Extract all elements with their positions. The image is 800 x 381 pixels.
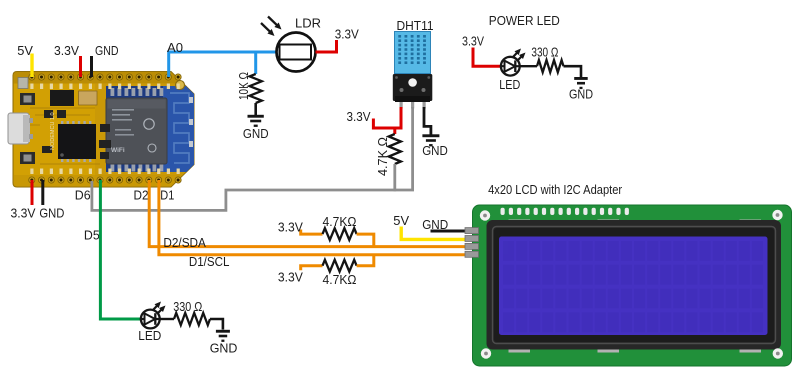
svg-text:LED: LED (138, 328, 161, 343)
label 3.3V pullup SCL (278, 269, 303, 284)
wire D5 green to LED (100, 180, 146, 319)
wire D2/SDA orange (149, 180, 465, 247)
wire resistor to ground bottom (210, 319, 223, 330)
metal part top-left (18, 78, 28, 89)
I2C connector pins on LCD (465, 228, 479, 258)
wire 3.3V red to board top (79, 56, 82, 77)
svg-text:330 Ω: 330 Ω (531, 45, 558, 60)
LED D2 indicator (140, 310, 161, 329)
svg-text:5V: 5V (393, 213, 409, 228)
label GND bottom LED (210, 341, 238, 356)
svg-text:GND: GND (422, 217, 448, 232)
wire DHT11 data gray to D6 (92, 107, 413, 210)
svg-text:4.7K Ω: 4.7K Ω (375, 137, 390, 176)
micro USB connector (8, 113, 29, 144)
svg-text:4.7KΩ: 4.7KΩ (323, 272, 357, 287)
button FLASH (20, 152, 35, 164)
label D1/SCL (189, 254, 230, 269)
CH340 usb-serial chip (58, 121, 96, 162)
svg-text:3.3V: 3.3V (11, 206, 36, 221)
label D2 (134, 188, 149, 203)
label DHT11 (397, 18, 434, 33)
wire DHT11 GND black (424, 107, 431, 135)
wire 5V yellow to LCD (401, 227, 465, 240)
ground at DHT11 (422, 134, 439, 146)
label 5V top (17, 43, 33, 58)
wire 3.3V red to power LED (473, 48, 508, 67)
label 4.7K SDA (323, 214, 357, 229)
label GND under 10K (243, 126, 269, 141)
pin header holes (29, 74, 182, 183)
svg-text:3.3V: 3.3V (278, 269, 303, 284)
passives (42, 110, 111, 159)
label GND power LED (569, 87, 593, 102)
label 4.7K ohm rotated (375, 137, 390, 176)
svg-text:3.3V: 3.3V (54, 43, 79, 58)
svg-text:GND: GND (210, 341, 238, 356)
NodeMCU ESP8266 board U1 (8, 72, 194, 188)
label A0 (167, 40, 183, 55)
resistor 10K pulldown (250, 74, 262, 115)
label 3.3V at DHT11 (347, 109, 371, 124)
wire SDA pullup to bus (357, 234, 374, 247)
svg-text:5V: 5V (17, 43, 33, 58)
label 3.3V top (54, 43, 79, 58)
wire 3.3V red at LDR (316, 40, 337, 52)
wire SCL pullup to bus (357, 255, 374, 266)
label 4.7K SCL (323, 272, 357, 287)
svg-text:POWER LED: POWER LED (489, 13, 560, 28)
polyfuse (tan) (79, 91, 98, 105)
resistor 330 ohm power (537, 60, 564, 72)
svg-text:DHT11: DHT11 (397, 18, 434, 33)
svg-text:LDR: LDR (295, 16, 321, 31)
label 3.3V at LDR (335, 27, 359, 42)
svg-text:GND: GND (243, 126, 269, 141)
svg-text:D1: D1 (160, 188, 174, 203)
svg-text:330 Ω: 330 Ω (173, 299, 202, 314)
LDR light arrows (261, 17, 282, 37)
svg-text:LED: LED (499, 77, 520, 92)
svg-text:D2: D2 (134, 188, 149, 203)
LED D1 power indicator (500, 57, 521, 76)
wire A0 blue from board to LDR (169, 52, 277, 77)
svg-text:GND: GND (95, 43, 119, 58)
label GND at DHT11 (422, 143, 448, 158)
resistor 4.7K pullup DHT data (389, 134, 401, 164)
svg-text:4.7KΩ: 4.7KΩ (323, 214, 357, 229)
label LDR (295, 16, 321, 31)
wire GND black board bottom (41, 180, 44, 205)
ground under 10K (248, 115, 264, 127)
label LED power (499, 77, 520, 92)
svg-text:3.3V: 3.3V (462, 34, 484, 49)
label POWER LED (489, 13, 560, 28)
LDR photoresistor (277, 33, 316, 72)
wire 3.3V orange to SCL pullup (301, 266, 323, 271)
label D1 (160, 188, 174, 203)
svg-text:GND: GND (39, 206, 64, 221)
label 3.3V bottom left (11, 206, 36, 221)
button RST (20, 93, 35, 105)
label D6 (75, 188, 91, 203)
svg-text:4x20 LCD with I2C Adapter: 4x20 LCD with I2C Adapter (488, 182, 623, 197)
label GND top (95, 43, 119, 58)
wire 5V yellow to board top (30, 54, 33, 78)
svg-text:D6: D6 (75, 188, 91, 203)
LED light arrows (513, 49, 526, 61)
label 330 ohm bottom (173, 299, 202, 314)
label 3.3V at power LED (462, 34, 484, 49)
wire GND black to board top (90, 56, 93, 77)
wire 3.3V red board bottom (31, 180, 34, 205)
ground power LED (574, 77, 588, 89)
silkscreen pads (30, 84, 180, 175)
LCD 4x20 module with I2C adapter (473, 205, 792, 366)
svg-text:A0: A0 (167, 40, 183, 55)
resistor 4.7K SDA pullup (323, 228, 357, 240)
svg-text:D1/SCL: D1/SCL (189, 254, 230, 269)
svg-text:NODEMCU 1.0: NODEMCU 1.0 (50, 112, 56, 150)
label LED bottom (138, 328, 161, 343)
LED light arrows bottom (153, 302, 166, 314)
label GND at LCD (422, 217, 448, 232)
svg-text:3.3V: 3.3V (278, 220, 303, 235)
label 4x20 LCD with I2C Adapter (488, 182, 623, 197)
svg-text:3.3V: 3.3V (335, 27, 359, 42)
wire resistor to ground (564, 66, 582, 77)
svg-text:10K Ω: 10K Ω (236, 72, 251, 100)
svg-text:WiFi: WiFi (111, 147, 125, 154)
ESP-12E wifi module (106, 86, 194, 172)
label D5 (84, 228, 100, 243)
wire GND black to LCD (431, 230, 466, 233)
svg-text:D2/SDA: D2/SDA (163, 235, 206, 250)
svg-text:GND: GND (569, 87, 593, 102)
wire LED to resistor bottom (159, 318, 174, 320)
resistor 330 ohm bottom (174, 313, 210, 325)
svg-text:D5: D5 (84, 228, 100, 243)
label 10K ohm rotated (236, 72, 251, 100)
wire 3.3V orange to SDA pullup (301, 230, 323, 235)
resistor 4.7K SCL pullup (323, 260, 357, 272)
DHT11 sensor (393, 32, 433, 109)
wire LED to resistor (519, 65, 537, 67)
wire D1/SCL orange (159, 180, 466, 255)
svg-text:3.3V: 3.3V (347, 109, 371, 124)
ground bottom LED (216, 330, 230, 342)
label 330 ohm power (531, 45, 558, 60)
svg-text:GND: GND (422, 143, 448, 158)
label 5V at LCD (393, 213, 409, 228)
small IC (50, 90, 74, 106)
wire 3.3V red to DHT11 VCC (373, 107, 401, 134)
label GND bottom left (39, 206, 64, 221)
label 3.3V pullup SDA (278, 220, 303, 235)
label D2/SDA (163, 235, 206, 250)
